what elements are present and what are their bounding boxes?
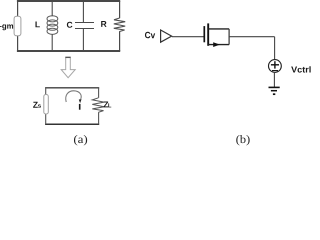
wire DS loop right edge <box>228 29 230 45</box>
wire capacitor bottom lead <box>82 29 84 52</box>
wire gate <box>172 36 204 38</box>
label Zs <box>33 102 38 108</box>
plus sign vertical <box>274 61 276 68</box>
source Vctrl circle <box>269 60 282 73</box>
impedance Zs element <box>44 95 49 115</box>
label C <box>67 22 73 28</box>
wire inductor bottom lead <box>51 34 53 51</box>
label ZL <box>104 101 109 107</box>
minus sign <box>272 70 278 72</box>
wire capacitor top lead <box>82 1 84 23</box>
wire inductor top lead <box>51 1 53 16</box>
wire to Vctrl horizontal <box>229 36 275 38</box>
ground bar 2 <box>271 90 277 92</box>
wire bottom box right edge upper <box>98 88 100 98</box>
ground bar 1 <box>269 86 280 88</box>
wire top box bottom <box>17 50 120 52</box>
current loop arrowhead <box>79 99 82 103</box>
block arrow dark top cap <box>65 56 70 58</box>
label (b) <box>236 135 249 145</box>
label Vctrl <box>291 66 311 72</box>
label R <box>101 21 106 27</box>
-gm transconductance element <box>14 16 21 36</box>
wire to Vctrl vertical <box>274 37 276 60</box>
wire source rail <box>208 44 229 46</box>
buffer amplifier triangle <box>161 30 172 42</box>
wire top box right edge lower <box>119 31 121 51</box>
label I <box>79 104 81 110</box>
wire bottom box top <box>45 87 99 89</box>
label (a) <box>74 135 87 145</box>
wire top box right edge upper <box>119 1 121 18</box>
capacitor C top plate <box>75 22 94 24</box>
wire top box top <box>17 0 120 2</box>
plus sign horizontal <box>271 64 279 66</box>
resistor R zigzag <box>114 18 125 32</box>
ground bar 3 <box>273 93 275 95</box>
inductor L coil <box>47 16 58 35</box>
current loop arc <box>66 91 81 102</box>
label ZL subscript L <box>108 103 111 107</box>
label -gm <box>0 24 13 30</box>
label L <box>35 21 39 27</box>
block arrow down <box>61 57 75 78</box>
wire drain rail <box>208 28 229 30</box>
wire bottom box left edge <box>45 88 47 124</box>
wire bottom box bottom <box>45 123 99 125</box>
capacitor C bottom plate <box>75 28 94 30</box>
MOSFET channel plate <box>207 23 209 45</box>
label Cv <box>145 32 155 39</box>
MOSFET gate plate <box>203 26 205 42</box>
wire bottom box right edge lower <box>98 112 100 124</box>
wire circle to ground <box>273 72 275 87</box>
label Zs subscript s <box>38 104 41 107</box>
MOSFET source arrow <box>213 42 220 47</box>
wire top box left edge <box>17 1 19 51</box>
resistor ZL zigzag <box>92 98 104 113</box>
